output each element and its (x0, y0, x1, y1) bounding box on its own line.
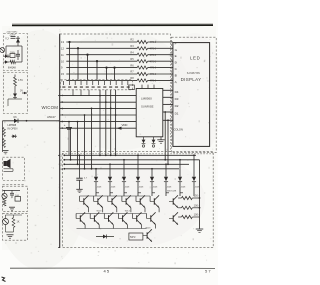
label 100-J (194, 213, 201, 217)
svg-text:IN OPEN: IN OPEN (8, 128, 18, 131)
svg-text:A5047: A5047 (47, 115, 56, 119)
svg-text:+: + (64, 123, 66, 127)
rail pin label (60, 163, 62, 166)
transistor Q11 (118, 212, 127, 224)
wire matrix row 5 (60, 121, 137, 123)
wire (6, 46, 22, 56)
wire (3, 189, 20, 191)
diode D16 (12, 135, 18, 139)
clock IC U1 (136, 89, 163, 137)
wire segment to display 7 (148, 79, 173, 81)
svg-text:D4: D4 (175, 90, 179, 94)
display pin D (175, 61, 178, 65)
label 9013 (146, 227, 152, 229)
transistor Q13 (147, 212, 156, 224)
svg-text:VDD: VDD (122, 123, 128, 127)
wire drop 6 (113, 66, 115, 79)
transistor Q1 (80, 195, 89, 207)
svg-text:SUNRISE: SUNRISE (141, 105, 154, 109)
main schematic spine (left vertical) (59, 34, 61, 248)
capacitor C11 (16, 50, 20, 60)
junction (26, 120, 28, 122)
regulator U2 (10, 52, 16, 58)
display pin D2 (175, 104, 179, 108)
ground (3, 151, 9, 154)
switch S12 (127, 81, 130, 88)
svg-text:LED: LED (190, 56, 200, 61)
display pin D4 (175, 90, 179, 94)
wire segment to display 2 (148, 47, 173, 49)
crystal Y1 (129, 85, 135, 90)
svg-text:B: B (175, 74, 177, 78)
alarm block SP1 (dashed box) (3, 157, 25, 180)
wire (136, 196, 145, 212)
wire segment to display 6 (148, 73, 173, 75)
ground (196, 229, 204, 232)
main block right dashed border (170, 34, 172, 152)
wire (8, 99, 22, 106)
label 1K (17, 221, 20, 224)
wire drop 1 (68, 41, 70, 80)
wire (96, 192, 99, 194)
svg-text:D3: D3 (175, 97, 179, 101)
diode D9 (96, 235, 114, 239)
node VDD rail (3, 121, 60, 152)
wire (104, 214, 113, 229)
ground (7, 235, 14, 238)
svg-text:9013: 9013 (97, 211, 103, 213)
component X2 (129, 233, 143, 240)
diode D7 (178, 159, 186, 196)
display pin C (175, 67, 178, 71)
brand label WICOM (42, 105, 59, 110)
svg-text:YJ: YJ (5, 37, 9, 41)
wire digit drive 1 (163, 89, 173, 91)
wire (122, 196, 131, 212)
wire matrix row 3 (60, 107, 137, 109)
wire (6, 215, 23, 232)
wire (150, 196, 159, 212)
connector underside stubs (73, 90, 89, 96)
wire digit line 3 (110, 90, 112, 156)
rail pin label (60, 168, 63, 171)
bottom-left ink mark (2, 277, 6, 282)
component X1 103 (15, 195, 21, 201)
svg-text:DISPLAY: DISPLAY (181, 77, 202, 82)
switch S3 (74, 81, 77, 88)
bottom page rule (10, 267, 215, 269)
wire base mesh row1 (80, 195, 151, 197)
wire segment bus 6 (66, 73, 137, 75)
transistor Q12 (3, 215, 9, 225)
main block top dashed border (60, 33, 171, 35)
label 9013 (125, 211, 131, 213)
resistor R11 (10, 60, 16, 63)
display pin COLON (174, 128, 183, 132)
output block (dashed box) (3, 213, 28, 240)
transistor Q5 (136, 195, 145, 207)
wire drop 2 (77, 47, 79, 80)
label LED (190, 56, 200, 61)
wire base mesh row2 (76, 213, 147, 215)
paper tone (0, 26, 223, 270)
pin 9 label (61, 66, 63, 70)
svg-text:WICOM: WICOM (42, 105, 59, 110)
ground (76, 189, 82, 192)
rail pin label (60, 154, 62, 157)
driver block inner dashed top (62, 153, 213, 155)
diode D15 (14, 116, 19, 123)
wire (77, 121, 79, 166)
wire segment to display 4 (148, 60, 173, 62)
label 150-J (194, 194, 201, 198)
resistor R15 (3, 199, 6, 206)
driver block (dashed box) (62, 152, 213, 248)
pin 8 label (62, 120, 64, 124)
resistor R23 (178, 215, 199, 218)
wire (138, 192, 141, 194)
label 470-J (150, 59, 157, 63)
label 9013 (97, 211, 103, 213)
ground (157, 137, 165, 143)
svg-text:D1: D1 (175, 112, 179, 116)
display pin A (175, 80, 178, 84)
speaker SP (4, 159, 11, 168)
diode D1 (94, 168, 102, 196)
LED display module DS1 (173, 43, 210, 147)
transistor Q6 (150, 195, 159, 207)
wire segment bus 7 (66, 79, 137, 81)
switch S5 (86, 81, 89, 88)
transistor Q10 (0, 48, 5, 53)
label SNOOZE (167, 191, 177, 193)
transistor Q10 (104, 212, 113, 224)
svg-text:R6: R6 (130, 63, 134, 67)
pin 12 label (61, 46, 64, 50)
svg-text:SJ-5467 BN: SJ-5467 BN (187, 72, 200, 75)
arrow node BAT (20, 90, 27, 95)
IC top pin stubs (142, 85, 154, 89)
svg-text:220V: 220V (10, 33, 16, 37)
wire (80, 196, 89, 212)
svg-text:IN4148: IN4148 (8, 67, 16, 70)
ground (9, 207, 15, 210)
rail pin label (60, 159, 62, 162)
svg-text:50Hz: 50Hz (130, 236, 136, 239)
wire segment to display 1 (148, 41, 173, 43)
wire (14, 86, 16, 93)
resistor R14 (3, 139, 6, 148)
wire segment rail 1 (63, 154, 196, 156)
transistor Q15 (143, 229, 152, 241)
wire (76, 214, 85, 229)
pin 5 label (62, 100, 64, 104)
power supply block PS1 (dashed box) (4, 34, 28, 71)
switch S7 (97, 81, 100, 88)
pin 9 label (62, 126, 64, 130)
resistor R7 (130, 70, 147, 76)
transformer T1 (5, 33, 16, 41)
display pin D1 (175, 112, 179, 116)
label 4.5V (18, 79, 23, 82)
label 470-J (150, 66, 157, 70)
wire (147, 214, 156, 229)
switch S6 (92, 81, 95, 88)
wire segment bus 1 (66, 41, 137, 43)
display outer dashed box (171, 37, 216, 152)
svg-text:4.5V: 4.5V (18, 79, 23, 82)
wire digit line 1 (99, 90, 101, 156)
wire to bottom block (164, 111, 166, 161)
page footer text 45 (104, 269, 110, 274)
label 220V 50Hz (7, 32, 18, 34)
transistor Q2 (94, 195, 103, 207)
wire (16, 46, 23, 62)
resistor R12 (14, 75, 17, 87)
wire segment rail 4 (63, 168, 179, 170)
wire digit drive 3 (163, 103, 173, 105)
wire segment bus 5 (66, 67, 137, 69)
resistor R16 (12, 215, 15, 228)
svg-text:LM8560: LM8560 (141, 96, 152, 100)
label 470-J (150, 79, 157, 83)
transistor Q9 (90, 212, 99, 224)
svg-text:R5: R5 (130, 57, 134, 61)
wire matrix row 4 (60, 114, 137, 116)
wire segment rail 3 (63, 163, 189, 165)
switch S8 (103, 81, 106, 88)
diode D3 (122, 159, 130, 196)
label 470-J (150, 72, 157, 76)
node VDD (117, 123, 128, 130)
oscillator block OSC1 (dashed box) (3, 186, 28, 211)
label 470-J (150, 40, 157, 44)
dashed divider (3, 184, 25, 186)
svg-text:5 7: 5 7 (205, 268, 211, 273)
wire (94, 196, 103, 212)
wire (124, 192, 127, 194)
wire drop 5 (105, 66, 107, 79)
wire (166, 192, 169, 194)
switch S4 (80, 81, 83, 88)
pin 8 label (61, 79, 63, 83)
diode D8 (192, 154, 200, 196)
wire (118, 214, 127, 229)
svg-text:E: E (175, 54, 177, 58)
spine pin stubs (58, 96, 60, 248)
switch S2 (68, 81, 71, 88)
resistor R21 (178, 196, 199, 199)
part label A5047 (47, 115, 56, 119)
wire (108, 196, 117, 212)
svg-text:3V: 3V (20, 90, 23, 93)
label LM78 (8, 124, 18, 131)
pin 15 label (61, 72, 64, 76)
pin 11 label (61, 53, 64, 57)
transistor Q3 (108, 195, 117, 207)
switch S11 (121, 81, 124, 88)
transistor Q14 (169, 212, 178, 224)
transistor Q12 (133, 212, 142, 224)
wire (90, 214, 99, 229)
svg-text:R3: R3 (130, 44, 134, 48)
wire (91, 108, 93, 170)
pin 13 label (61, 40, 64, 44)
diode D5 (150, 168, 158, 196)
svg-text:4 5: 4 5 (104, 269, 110, 274)
wire digit drive 5 (163, 119, 173, 121)
wire drop 3 (86, 54, 88, 80)
wire matrix row 1 (60, 95, 137, 97)
wire (4, 169, 14, 172)
resistor R5 (130, 57, 147, 63)
svg-text:9013: 9013 (125, 211, 131, 213)
display pin D3 (175, 97, 179, 101)
key connector J1 (dashed box) (61, 80, 133, 90)
svg-text:9013: 9013 (146, 227, 152, 229)
transistor Q11 (2, 190, 7, 198)
transistor Q4 (122, 195, 131, 207)
switch S1 (62, 81, 65, 88)
scan speckle (4, 29, 214, 265)
wire drop 4 (96, 60, 98, 80)
capacitor C2 (76, 154, 88, 189)
wire to bottom block (167, 119, 169, 165)
capacitor C1 (64, 121, 72, 156)
pin 10 label (61, 59, 64, 63)
wire (180, 192, 183, 194)
svg-text:7805: 7805 (10, 52, 16, 54)
wire segment bus 4 (66, 60, 137, 62)
transistor Q7 (169, 195, 178, 207)
resistor R2 (130, 38, 147, 44)
svg-text:COLON: COLON (174, 128, 183, 132)
label IN4148 (8, 67, 16, 70)
LED lamp LP1 (142, 137, 146, 147)
display pin B (175, 74, 177, 78)
display pin G (175, 48, 178, 52)
svg-text:R7: R7 (130, 70, 134, 74)
wire right rail (199, 160, 201, 229)
pin 6 label (62, 106, 64, 110)
resistor R22 (178, 206, 199, 209)
svg-text:R4: R4 (130, 50, 134, 54)
diode D11 (16, 36, 20, 46)
LED lamp LP2 (152, 137, 156, 147)
transistor Q8 (76, 212, 85, 224)
diode D12 (4, 54, 10, 58)
wire digit line 2 (105, 90, 107, 156)
capacitor C12 (10, 190, 14, 198)
svg-text:SNOOZE: SNOOZE (167, 191, 177, 193)
wire matrix row 2 (60, 101, 137, 103)
svg-text:LM7808: LM7808 (8, 124, 17, 127)
pin 4 label (62, 94, 64, 98)
svg-text:D2: D2 (175, 104, 179, 108)
display pin E (175, 54, 177, 58)
top page rule (12, 24, 213, 26)
battery block BT1 (dashed box) (4, 73, 28, 114)
label part number (187, 72, 200, 75)
resistor R8 (130, 76, 147, 82)
wire (70, 127, 72, 160)
label 100-J (194, 204, 201, 208)
wire segment to display 5 (148, 67, 173, 69)
label 470-J (150, 53, 157, 57)
resistor R6 (130, 63, 147, 69)
wire (133, 214, 142, 229)
switch S10 (115, 81, 118, 88)
label DISPLAY (181, 77, 202, 82)
diode D4 (136, 154, 144, 196)
svg-text:R2: R2 (130, 38, 134, 42)
wire matrix row 6 (60, 127, 137, 129)
wire segment bus 3 (66, 54, 137, 56)
wire segment bus 2 (66, 47, 137, 49)
wire digit line 4 (115, 90, 117, 156)
switch S9 (109, 81, 112, 88)
diode D13 (4, 60, 10, 64)
diode D2 (108, 163, 116, 196)
wire segment rail 2 (63, 159, 199, 161)
wire segment to display 3 (148, 54, 173, 56)
display pin F (175, 42, 177, 46)
page number 57 (205, 268, 211, 273)
diode D6 (164, 163, 172, 196)
wire (152, 192, 155, 194)
wire digit drive 2 (163, 96, 173, 98)
resistor R4 (130, 50, 147, 56)
wire digit drive 4 (163, 111, 173, 113)
wire emitter rail row2 (77, 228, 147, 230)
svg-text:F: F (175, 42, 177, 46)
pin 7 label (62, 113, 64, 117)
resistor R13 (3, 128, 6, 137)
wire (110, 192, 113, 194)
svg-text:1K: 1K (17, 221, 20, 224)
resistor R3 (130, 44, 147, 50)
diode D14 (13, 93, 17, 99)
label 470-J (150, 46, 157, 50)
wire (84, 114, 86, 170)
